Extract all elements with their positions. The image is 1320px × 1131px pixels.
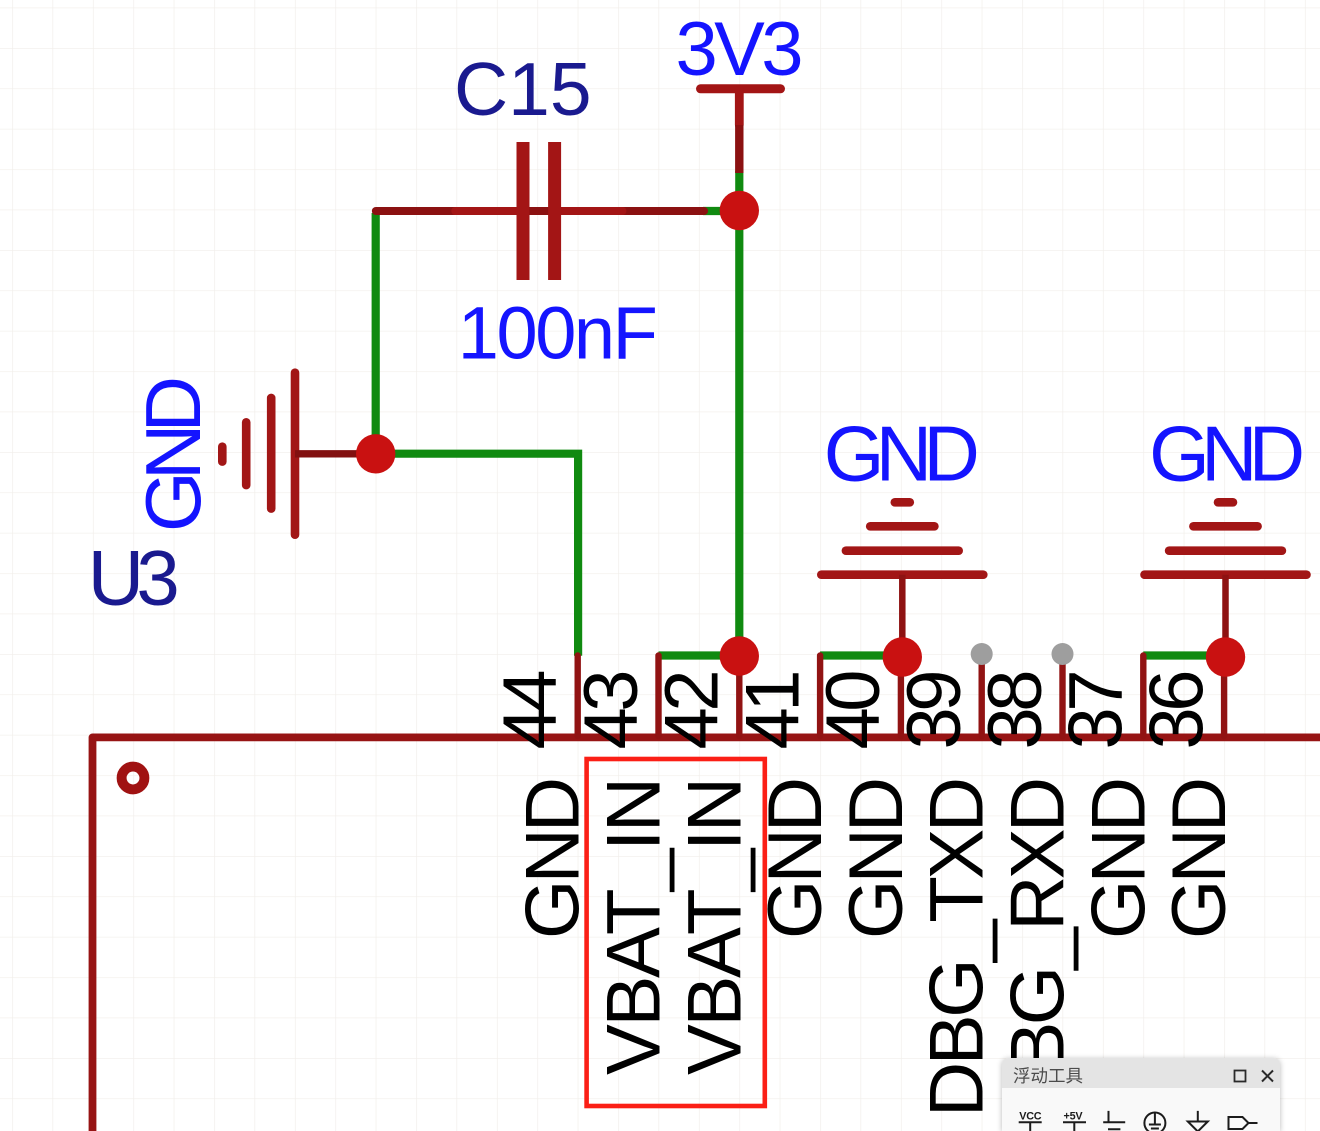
svg-text:GND: GND bbox=[1076, 777, 1161, 939]
svg-text:GND: GND bbox=[511, 777, 596, 939]
svg-text:VBAT_IN: VBAT_IN bbox=[592, 777, 677, 1075]
svg-text:GND: GND bbox=[1149, 409, 1305, 497]
svg-text:42: 42 bbox=[650, 670, 735, 750]
svg-text:U3: U3 bbox=[88, 534, 180, 622]
svg-text:DBG_TXD: DBG_TXD bbox=[915, 777, 1000, 1117]
svg-text:GND: GND bbox=[824, 409, 980, 497]
svg-text:44: 44 bbox=[488, 670, 573, 750]
svg-text:43: 43 bbox=[569, 670, 654, 750]
svg-text:+5V: +5V bbox=[1064, 1110, 1084, 1122]
svg-text:C15: C15 bbox=[454, 47, 592, 131]
svg-text:VBAT_IN: VBAT_IN bbox=[672, 777, 757, 1075]
svg-text:GND: GND bbox=[1157, 777, 1242, 939]
svg-text:37: 37 bbox=[1054, 670, 1139, 750]
svg-text:100nF: 100nF bbox=[458, 292, 658, 375]
svg-text:3V3: 3V3 bbox=[676, 7, 804, 92]
svg-text:39: 39 bbox=[892, 670, 977, 750]
svg-text:GND: GND bbox=[129, 376, 217, 532]
svg-text:36: 36 bbox=[1134, 670, 1219, 750]
svg-text:GND: GND bbox=[834, 777, 919, 939]
svg-text:38: 38 bbox=[973, 670, 1058, 750]
svg-text:41: 41 bbox=[730, 670, 815, 750]
svg-text:VCC: VCC bbox=[1019, 1110, 1042, 1122]
svg-text:40: 40 bbox=[811, 670, 896, 750]
